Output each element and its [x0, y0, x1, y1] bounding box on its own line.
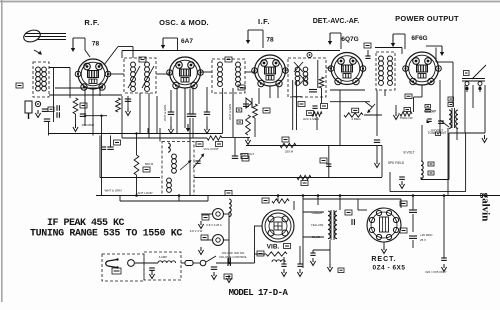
junction [100, 115, 102, 117]
wire [317, 60, 319, 88]
osc coil winding 1 [218, 62, 223, 67]
coil L2 [229, 199, 231, 217]
arrow into IF grid [247, 30, 249, 41]
T1 trimmer 1 [128, 66, 140, 88]
wire [317, 196, 319, 206]
wire [176, 87, 178, 110]
AVC bus [246, 145, 382, 147]
svg-text:WHT & GRN: WHT & GRN [228, 104, 232, 120]
resistor R3 [134, 155, 139, 175]
ground C32 [213, 272, 215, 276]
wire [448, 133, 450, 180]
svg-text:VOL CONT: VOL CONT [203, 147, 218, 151]
wire [339, 196, 341, 211]
wire [176, 110, 178, 134]
svg-text:250 M: 250 M [285, 150, 294, 154]
part box [436, 132, 441, 136]
arrow B+ feed [441, 46, 443, 53]
wire [135, 262, 158, 264]
part box P1 [202, 215, 209, 220]
part box R10 [352, 108, 359, 113]
ground C33 [228, 275, 230, 279]
part box T1 [139, 57, 146, 62]
wire [232, 88, 234, 137]
wire [412, 240, 414, 248]
part box [321, 104, 328, 109]
battery box 1 [102, 254, 144, 281]
part box R9 [282, 137, 289, 142]
wire plate line [84, 115, 107, 117]
svg-text:6A7: 6A7 [181, 38, 193, 45]
ground rect [383, 246, 385, 250]
cap C13 [190, 113, 196, 115]
wire [84, 89, 86, 126]
wire [452, 62, 454, 106]
part box [237, 120, 243, 124]
wire [192, 86, 194, 114]
dial lamp P1 [213, 209, 224, 220]
wire [53, 68, 55, 123]
wire [412, 214, 414, 232]
part box C29 [400, 228, 407, 233]
wire heater bus [122, 50, 340, 52]
wire [121, 51, 123, 59]
bus y178 [100, 177, 160, 179]
part box L4a [428, 162, 434, 166]
part box [320, 158, 327, 163]
antenna coil primary L1a [36, 67, 41, 72]
cap C32 [211, 266, 217, 268]
svg-text:IF PEAK 455 KC: IF PEAK 455 KC [47, 218, 125, 229]
wire [201, 239, 213, 241]
svg-text:TUNING RANGE 535 TO 1550 KC: TUNING RANGE 535 TO 1550 KC [30, 229, 182, 240]
power transformer secondary [335, 211, 337, 239]
svg-text:WHT & GRN: WHT & GRN [104, 189, 121, 193]
resistor R8h [312, 112, 322, 116]
antenna down lead [27, 42, 29, 101]
wire [443, 196, 445, 259]
cap C25 [297, 263, 302, 265]
wire [156, 73, 169, 75]
jack J1 [35, 101, 40, 106]
resistor R10 [344, 113, 363, 117]
wire y133 [449, 132, 485, 134]
dashed shield [245, 80, 247, 104]
part box [236, 108, 242, 112]
wire [258, 88, 260, 104]
AF winding [379, 56, 384, 61]
wire [376, 90, 378, 136]
wire [92, 89, 94, 136]
wire [200, 71, 212, 73]
junction dots [302, 194, 305, 197]
tube V5 6F6G output [406, 52, 439, 85]
wire [436, 61, 446, 63]
output transformer core [451, 108, 453, 128]
ground R1 [75, 124, 77, 128]
wire [389, 172, 391, 192]
part box fuse [112, 268, 121, 274]
junction [135, 132, 137, 134]
cap C24 [281, 263, 286, 265]
wire [121, 96, 123, 138]
wire [316, 117, 318, 130]
node [200, 260, 206, 266]
part box [307, 111, 314, 116]
wire [464, 85, 466, 133]
resistor R2 [116, 98, 121, 112]
output transformer secondary [456, 110, 458, 128]
vibrator VIB [262, 210, 294, 242]
wire [234, 138, 236, 156]
svg-text:6-8 V 0.25 A: 6-8 V 0.25 A [206, 223, 222, 227]
part box C14 [241, 154, 248, 159]
svg-text:galvin: galvin [480, 193, 492, 222]
wire [326, 67, 332, 69]
wire [255, 253, 267, 255]
wire [364, 114, 382, 116]
resistor R9 AVC [280, 143, 296, 147]
scan border top [0, 1, 500, 3]
wire T1 plate [118, 46, 133, 48]
part marker T2 [307, 53, 312, 58]
wire [421, 85, 423, 97]
terminal dot [465, 87, 468, 90]
bus y191 [390, 191, 466, 193]
bus y178b [194, 177, 382, 179]
part box left edge [16, 83, 23, 88]
part box [238, 85, 245, 90]
resistor R15 [266, 252, 287, 256]
wire [285, 69, 288, 71]
rectifier tube V6 [367, 208, 401, 242]
choke L3 [158, 261, 176, 263]
arrow AVC [187, 124, 189, 129]
wire [330, 101, 370, 103]
wire [420, 177, 422, 180]
part box [405, 94, 412, 99]
scan border left [1, 0, 3, 302]
part box R6 [263, 108, 270, 113]
svg-text:AVC VOLT: AVC VOLT [240, 152, 255, 156]
part box P2 [201, 235, 208, 240]
wire AVC line [49, 133, 223, 135]
ground [299, 269, 301, 273]
svg-text:VIB.: VIB. [267, 244, 280, 251]
T2 trimmer 1 [294, 62, 303, 72]
battery box 2 [144, 252, 181, 280]
ground [443, 264, 445, 268]
ground P2 [200, 247, 202, 251]
cap C16 [309, 89, 317, 91]
wire [293, 201, 295, 210]
part box rect [345, 210, 352, 215]
ground ant [37, 110, 39, 114]
wire [472, 85, 474, 108]
wire [339, 90, 341, 146]
wire [254, 118, 256, 137]
wire [303, 236, 324, 238]
wire [479, 86, 481, 92]
wire [400, 199, 402, 208]
part box R5 [216, 142, 223, 147]
wire [170, 90, 172, 112]
wire [240, 87, 246, 89]
svg-text:WHT & GRN: WHT & GRN [163, 105, 167, 121]
wire [312, 250, 314, 253]
cap C6 [107, 146, 113, 148]
wire [313, 249, 330, 251]
variable cap C15 [195, 160, 200, 162]
wire [48, 122, 50, 136]
power transformer core [330, 210, 332, 240]
svg-text:A4 VOLT: A4 VOLT [431, 128, 443, 132]
wire [375, 47, 402, 49]
wire [456, 128, 458, 140]
part box [196, 142, 203, 147]
wire [293, 96, 302, 98]
svg-text:I.F.: I.F. [258, 17, 270, 26]
T2 trimmer 2 [300, 75, 308, 84]
filter cap C29 [409, 235, 417, 237]
AF winding 2 [388, 56, 393, 61]
svg-text:78: 78 [266, 37, 274, 44]
svg-text:B2 VOLT: B2 VOLT [424, 109, 436, 113]
diode D1 [246, 98, 252, 108]
cap C31 [149, 267, 155, 269]
IF transformer T2 box [288, 58, 326, 97]
wire [184, 88, 186, 128]
wire [446, 61, 453, 63]
ground P1 [200, 221, 202, 225]
resistor R6 [253, 104, 258, 118]
wire [484, 85, 486, 133]
cap C8 [125, 98, 131, 100]
fuse circle [128, 260, 135, 267]
wire vert [292, 80, 294, 130]
tube V3 78 IF [255, 55, 286, 86]
part box spk [464, 71, 470, 76]
wire [269, 87, 271, 99]
svg-text:YELLOW: YELLOW [311, 223, 324, 227]
spk arrow [440, 120, 449, 127]
part box R1 [80, 103, 87, 108]
wire vol line [122, 137, 207, 139]
cap C20 [365, 55, 370, 57]
antenna loop [22, 28, 42, 44]
T1 primary [131, 62, 136, 67]
ground [312, 258, 314, 262]
tuning coil winding A [172, 154, 177, 159]
wire [148, 93, 150, 138]
wire [224, 239, 230, 241]
wire [201, 213, 213, 215]
ground [170, 126, 172, 130]
wire [435, 48, 437, 63]
ground [376, 160, 378, 164]
dashed top [240, 182, 288, 184]
part box R14 [262, 198, 269, 203]
cap C26 [310, 252, 315, 254]
cap C18 [326, 163, 331, 165]
cap C30 [441, 257, 447, 259]
cap C2 [44, 118, 50, 120]
wire [283, 257, 285, 264]
wire y179 [421, 179, 449, 181]
wire [159, 128, 161, 142]
wire [207, 196, 209, 202]
cap C9 [168, 111, 174, 113]
wire [75, 114, 77, 124]
wire [447, 128, 449, 196]
speaker terminals [462, 78, 485, 80]
tube V2 6A7 OSC-MOD [170, 57, 201, 88]
wire [216, 262, 255, 264]
ground [206, 126, 208, 130]
wire [395, 105, 397, 112]
wire T1 plate diag [104, 47, 118, 66]
cap C1 [42, 108, 48, 110]
cap C10 [187, 113, 193, 115]
ground [401, 181, 403, 185]
wire [206, 87, 208, 112]
wire [55, 87, 103, 89]
arrow into ant coil [34, 50, 41, 54]
part box R12 [301, 181, 308, 186]
cap C19b [438, 120, 444, 122]
wire [381, 146, 383, 178]
cap C7 [102, 146, 106, 148]
tube V1 78 RF [78, 59, 108, 89]
svg-text:POWER OUTPUT: POWER OUTPUT [395, 14, 459, 23]
resistor R14 [272, 199, 289, 203]
part box C28 [400, 201, 407, 206]
T2 primary [295, 67, 300, 72]
resistor R12 [297, 175, 311, 179]
wire [222, 137, 250, 139]
ground spk [484, 135, 486, 139]
wire vert [296, 80, 298, 130]
osc coil winding 2 [236, 62, 241, 67]
cap C19 [425, 109, 431, 111]
wire [358, 209, 367, 211]
speaker cone [472, 65, 486, 79]
part box R3 [143, 167, 150, 172]
tuning coil top winding [168, 143, 170, 152]
tube V4 6Q7G DET-AVC-AF [331, 53, 363, 85]
wire [178, 196, 180, 202]
part box osc [225, 57, 232, 62]
resistor R7 [319, 77, 324, 88]
wire [136, 133, 138, 155]
svg-text:25 V: 25 V [420, 238, 426, 242]
wire [119, 196, 121, 202]
wire [110, 136, 112, 148]
cap C21 [374, 139, 380, 141]
wire [384, 90, 386, 96]
svg-text:OSC. & MOD.: OSC. & MOD. [159, 18, 209, 27]
wire [328, 146, 330, 178]
wire [99, 136, 101, 178]
resistor R5 volume [207, 136, 222, 140]
part box [338, 268, 344, 273]
wire [49, 67, 70, 69]
svg-text:6 AMP: 6 AMP [159, 255, 167, 259]
svg-text:78: 78 [92, 41, 100, 48]
wire [108, 73, 124, 75]
wire [277, 196, 279, 202]
ground [395, 112, 397, 116]
part box det [364, 43, 371, 48]
wire [101, 116, 103, 196]
wire [376, 145, 378, 160]
cap C23 [427, 118, 431, 120]
svg-text:750Ω CW: 750Ω CW [399, 116, 412, 120]
wire [136, 175, 138, 196]
part box [298, 102, 305, 107]
wire [206, 117, 208, 127]
svg-text:RECT.: RECT. [371, 256, 396, 263]
IF transformer T1 box [124, 58, 156, 93]
resistor R1 [73, 98, 78, 114]
antenna coil secondary L1b [42, 67, 47, 72]
wire [357, 199, 359, 210]
T1 secondary [145, 62, 150, 67]
part box [425, 105, 431, 109]
svg-text:+20 MFD: +20 MFD [420, 233, 433, 237]
wire [170, 117, 172, 127]
wire [303, 211, 324, 213]
part box OT1 [448, 97, 454, 101]
part box [242, 156, 249, 161]
wire [147, 128, 149, 134]
wire [222, 88, 224, 133]
wire [189, 89, 191, 115]
buzzer coil L5 [272, 260, 285, 262]
svg-text:SPK FIELD: SPK FIELD [388, 161, 405, 165]
wire [299, 246, 301, 264]
antenna plug [25, 101, 32, 113]
battery clip [106, 260, 117, 268]
arrow into OSC grid [162, 38, 164, 46]
cap C5 [80, 113, 86, 115]
cap C12 [243, 103, 249, 105]
wire [302, 196, 304, 269]
part box R15 [257, 251, 264, 256]
svg-text:0Z4 = 6X5 ONLY: 0Z4 = 6X5 ONLY [425, 270, 446, 274]
wire [245, 71, 254, 73]
tuning coil box [162, 142, 194, 196]
svg-text:500 M: 500 M [145, 162, 154, 166]
antenna coil box [33, 62, 49, 97]
osc coil box [212, 59, 245, 93]
svg-text:VOLUME CONTROL: VOLUME CONTROL [219, 255, 248, 259]
cap C33 [227, 258, 229, 266]
connector [185, 261, 193, 266]
wire lamp box bottom [120, 200, 208, 202]
wire [156, 96, 158, 134]
wire [321, 88, 323, 103]
ground [151, 271, 153, 275]
wire [99, 87, 101, 96]
T1 trimmer 2 [142, 66, 154, 88]
cap C11 [204, 111, 210, 113]
wire [127, 96, 129, 108]
wire [421, 125, 423, 161]
part box ant [48, 107, 54, 112]
wire [383, 242, 385, 246]
arrow into OUT grid [392, 34, 394, 44]
